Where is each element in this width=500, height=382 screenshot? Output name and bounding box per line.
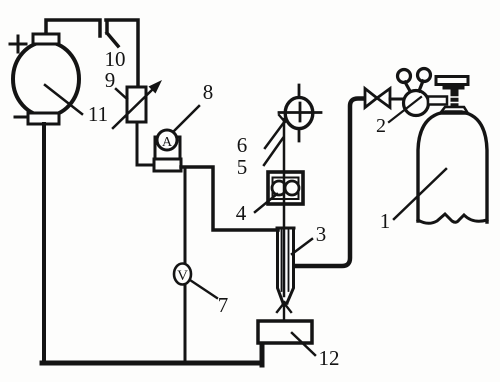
svg-text:7: 7 bbox=[218, 293, 229, 317]
svg-text:4: 4 bbox=[236, 201, 247, 225]
svg-text:1: 1 bbox=[380, 209, 391, 233]
svg-text:V: V bbox=[177, 268, 188, 284]
svg-text:A: A bbox=[162, 135, 173, 150]
svg-text:5: 5 bbox=[237, 155, 248, 179]
svg-text:6: 6 bbox=[237, 133, 248, 157]
svg-text:9: 9 bbox=[105, 68, 116, 92]
svg-text:2: 2 bbox=[376, 115, 386, 137]
svg-text:11: 11 bbox=[88, 102, 108, 126]
svg-text:8: 8 bbox=[203, 80, 214, 104]
svg-text:3: 3 bbox=[316, 222, 327, 246]
svg-text:12: 12 bbox=[319, 346, 340, 370]
